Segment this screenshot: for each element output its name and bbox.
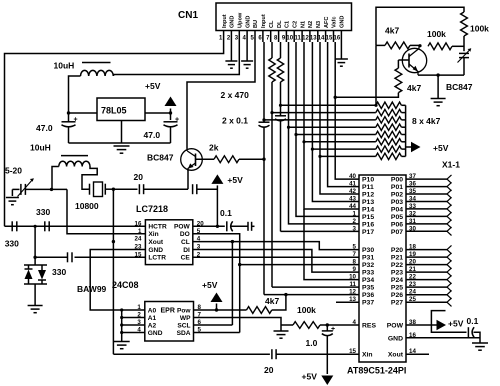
wire 4k7 bottom to Vafc column bbox=[335, 93, 398, 98]
wire CN1 pin5 to transistor Q1 collector bbox=[187, 42, 255, 149]
capacitor 330 LCTR bbox=[67, 252, 69, 262]
power +5V oscillator bbox=[211, 174, 223, 184]
svg-text:0.1: 0.1 bbox=[467, 316, 479, 326]
wire Q2 base network bbox=[398, 59, 409, 61]
svg-text:13: 13 bbox=[310, 36, 317, 42]
wire MCU GND to ground bbox=[406, 337, 480, 339]
svg-text:Xin: Xin bbox=[148, 231, 158, 238]
svg-text:1.0: 1.0 bbox=[306, 338, 318, 348]
svg-text:C1: C1 bbox=[285, 21, 291, 28]
power +5V down arrow bbox=[321, 376, 333, 386]
svg-text:RES: RES bbox=[362, 323, 376, 330]
svg-text:+: + bbox=[74, 117, 78, 124]
wire bus column pin9 to P16 bbox=[289, 42, 360, 224]
svg-text:12: 12 bbox=[349, 289, 356, 296]
svg-text:12: 12 bbox=[302, 36, 309, 42]
svg-text:78L05: 78L05 bbox=[101, 106, 127, 116]
wire DO to P32 and SDA bbox=[193, 234, 359, 265]
svg-text:LCTR: LCTR bbox=[148, 255, 166, 262]
svg-text:Vafc: Vafc bbox=[332, 16, 338, 28]
svg-text:P37: P37 bbox=[362, 300, 374, 307]
svg-text:P03: P03 bbox=[391, 199, 403, 206]
capacitor POW second bbox=[247, 222, 249, 231]
wire tank junction to LC7218 Xin bbox=[26, 188, 68, 190]
wire RES row bbox=[327, 324, 359, 326]
svg-text:C2: C2 bbox=[292, 21, 298, 28]
wire reset cap to +5V down arrow bbox=[326, 335, 328, 374]
ground CN1 pin4 bbox=[246, 42, 248, 61]
svg-text:GND: GND bbox=[340, 16, 346, 28]
svg-text:14: 14 bbox=[318, 36, 325, 42]
crystal 10800 bbox=[89, 184, 91, 195]
svg-text:Pow: Pow bbox=[177, 307, 191, 314]
capacitor 330 second bbox=[44, 221, 46, 231]
svg-text:+5V: +5V bbox=[433, 143, 449, 153]
svg-text:5-20: 5-20 bbox=[5, 166, 22, 176]
wire Q2 emitter rail bbox=[418, 74, 464, 76]
wire bus column pin6 to P36 bbox=[263, 42, 265, 122]
svg-text:+5V: +5V bbox=[227, 175, 243, 185]
svg-text:11: 11 bbox=[295, 36, 302, 42]
wire 78L05 input bbox=[69, 112, 98, 114]
svg-text:330: 330 bbox=[52, 267, 66, 277]
wire diode branch bbox=[34, 226, 36, 265]
svg-text:AFC: AFC bbox=[324, 17, 330, 29]
svg-text:P35: P35 bbox=[362, 285, 374, 292]
svg-text:20: 20 bbox=[134, 172, 144, 182]
svg-text:P12: P12 bbox=[362, 192, 374, 199]
svg-text:P21: P21 bbox=[391, 255, 403, 262]
svg-text:CN1: CN1 bbox=[178, 10, 198, 21]
svg-text:+5V: +5V bbox=[202, 280, 218, 290]
svg-text:24: 24 bbox=[135, 236, 142, 243]
svg-text:P00: P00 bbox=[391, 177, 403, 184]
power +5V 24C08 bbox=[194, 309, 247, 311]
wire CL to P30 and SCL bbox=[193, 242, 359, 250]
wire bus column pin13 to P12 bbox=[320, 42, 359, 194]
wire bus column pin15 to P10 bbox=[335, 42, 359, 179]
svg-text:DO: DO bbox=[180, 231, 190, 238]
wire bus column pin8 to P17 bbox=[280, 120, 282, 231]
svg-text:CL: CL bbox=[269, 20, 275, 28]
svg-text:9: 9 bbox=[353, 266, 357, 273]
ground CN1 pin16 bbox=[340, 42, 342, 59]
ground reset bbox=[274, 330, 289, 332]
svg-text:Xout: Xout bbox=[388, 352, 404, 359]
regulator 78L05 bbox=[97, 98, 145, 121]
svg-text:X1-1: X1-1 bbox=[442, 160, 460, 170]
power +5V regulator output bbox=[170, 109, 172, 121]
svg-text:GND: GND bbox=[148, 247, 163, 254]
svg-text:16: 16 bbox=[334, 36, 341, 42]
svg-text:GND: GND bbox=[148, 330, 163, 337]
ground diodes bbox=[34, 284, 36, 306]
svg-text:N3: N3 bbox=[316, 21, 322, 28]
svg-text:10: 10 bbox=[286, 36, 293, 42]
wire bypass cap to +5V stem bbox=[197, 188, 218, 190]
svg-text:DL: DL bbox=[277, 20, 283, 28]
svg-text:Upow: Upow bbox=[238, 12, 244, 28]
svg-text:+: + bbox=[331, 326, 335, 333]
svg-text:Xout: Xout bbox=[148, 239, 163, 246]
capacitor 0.1 on pin6 column bbox=[259, 121, 270, 123]
svg-text:10uH: 10uH bbox=[54, 61, 75, 71]
svg-text:P23: P23 bbox=[391, 270, 403, 277]
svg-text:P16: P16 bbox=[362, 221, 374, 228]
svg-text:7: 7 bbox=[353, 251, 357, 258]
wire top rail to 100k bbox=[376, 7, 464, 45]
svg-text:47.0: 47.0 bbox=[144, 130, 161, 140]
svg-text:20: 20 bbox=[264, 365, 274, 375]
svg-text:47.0: 47.0 bbox=[36, 123, 53, 133]
svg-text:N2: N2 bbox=[308, 21, 314, 28]
capacitor bypass at Q1 emitter bbox=[192, 184, 194, 194]
svg-text:A2: A2 bbox=[148, 322, 157, 329]
svg-text:+: + bbox=[175, 117, 179, 124]
svg-text:A0: A0 bbox=[148, 307, 157, 314]
capacitor 47.0 input electrolytic bbox=[62, 121, 76, 123]
capacitor 330 left bbox=[11, 221, 13, 231]
svg-text:P15: P15 bbox=[362, 214, 374, 221]
svg-text:4k7: 4k7 bbox=[385, 26, 399, 36]
svg-text:WP: WP bbox=[180, 315, 191, 322]
svg-text:N1: N1 bbox=[300, 21, 306, 28]
svg-text:P27: P27 bbox=[391, 300, 403, 307]
svg-text:+5V: +5V bbox=[145, 81, 161, 91]
svg-text:3: 3 bbox=[353, 225, 357, 232]
connector X1-1 port2 bbox=[406, 249, 447, 251]
resistor 4k7 emitter-base vertical bbox=[395, 68, 402, 93]
svg-text:P22: P22 bbox=[391, 262, 403, 269]
resistor array 8x4k7 bbox=[281, 104, 376, 106]
svg-text:P05: P05 bbox=[391, 214, 403, 221]
svg-text:2: 2 bbox=[353, 218, 357, 225]
svg-text:42: 42 bbox=[349, 188, 356, 195]
svg-text:Input: Input bbox=[222, 14, 228, 28]
svg-text:P36: P36 bbox=[362, 292, 374, 299]
svg-text:5: 5 bbox=[353, 244, 357, 251]
wire bus column pin11 to P14 and P34 bbox=[304, 42, 359, 209]
wire LC7218 GND to 24C08 ground bus bbox=[90, 250, 145, 311]
wire SDA up bbox=[194, 332, 240, 334]
svg-text:10: 10 bbox=[349, 274, 356, 281]
svg-text:44: 44 bbox=[349, 203, 356, 210]
wire WP to ground node bbox=[194, 318, 282, 326]
svg-text:P34: P34 bbox=[362, 277, 374, 284]
svg-text:+5V: +5V bbox=[302, 372, 318, 382]
svg-text:330: 330 bbox=[5, 239, 19, 249]
diode pair BAW99 bbox=[24, 264, 47, 266]
svg-text:0.1: 0.1 bbox=[220, 208, 232, 218]
svg-text:AT89C51-24PI: AT89C51-24PI bbox=[347, 366, 406, 376]
svg-text:10800: 10800 bbox=[75, 201, 99, 211]
svg-text:41: 41 bbox=[349, 181, 356, 188]
svg-text:+5V: +5V bbox=[448, 319, 464, 329]
svg-text:15: 15 bbox=[326, 36, 333, 42]
svg-text:SDA: SDA bbox=[177, 330, 191, 337]
wire P37 stub bbox=[336, 301, 359, 303]
svg-text:100k: 100k bbox=[470, 24, 489, 34]
wire XTAL bus bbox=[113, 353, 270, 355]
svg-text:A1: A1 bbox=[148, 315, 157, 322]
wire bus column pin14 to P11 bbox=[328, 42, 359, 187]
EEPROM 24C08 bbox=[145, 302, 194, 342]
svg-text:P17: P17 bbox=[362, 229, 374, 236]
svg-text:P07: P07 bbox=[391, 229, 403, 236]
svg-text:P25: P25 bbox=[391, 285, 403, 292]
svg-text:10uH: 10uH bbox=[30, 143, 51, 153]
wire bus column pin7 to P35 bbox=[271, 82, 273, 287]
wire bus column pin12 to P13 bbox=[312, 42, 359, 202]
svg-text:8: 8 bbox=[353, 259, 357, 266]
svg-text:100k: 100k bbox=[297, 305, 316, 315]
wire SCL up bbox=[194, 324, 233, 326]
svg-text:P32: P32 bbox=[362, 262, 374, 269]
svg-text:P04: P04 bbox=[391, 206, 403, 213]
svg-text:P10: P10 bbox=[362, 177, 374, 184]
wire 4k7 to P36 row bbox=[272, 295, 286, 310]
svg-text:P33: P33 bbox=[362, 270, 374, 277]
svg-text:BAW99: BAW99 bbox=[77, 284, 107, 294]
power +5V array rail bbox=[411, 142, 421, 152]
svg-text:1: 1 bbox=[353, 210, 357, 217]
svg-text:330: 330 bbox=[36, 207, 50, 217]
svg-text:LC7218: LC7218 bbox=[136, 204, 168, 214]
svg-text:24C08: 24C08 bbox=[112, 280, 139, 290]
svg-text:POW: POW bbox=[387, 323, 404, 330]
ground MCU bbox=[472, 342, 488, 344]
svg-text:P30: P30 bbox=[362, 247, 374, 254]
ground CN1 pin2 bbox=[230, 42, 232, 61]
wire 78L05 ground rail bbox=[121, 121, 123, 144]
svg-text:BC847: BC847 bbox=[446, 82, 473, 92]
wire CN1 pin1 to LC7218 HCTR row bbox=[5, 42, 224, 226]
wire 78L05 output bbox=[145, 112, 171, 114]
svg-text:Input: Input bbox=[261, 14, 267, 28]
svg-text:2k: 2k bbox=[209, 143, 219, 153]
svg-text:P02: P02 bbox=[391, 192, 403, 199]
wire LCTR row bbox=[75, 256, 146, 258]
svg-text:Xin: Xin bbox=[362, 352, 373, 359]
svg-text:P06: P06 bbox=[391, 221, 403, 228]
svg-text:13: 13 bbox=[349, 296, 356, 303]
PLL LC7218 bbox=[145, 220, 192, 265]
svg-text:BC847: BC847 bbox=[147, 153, 174, 163]
svg-text:4k7: 4k7 bbox=[407, 83, 421, 93]
wire crystal node to 20pF cap bbox=[113, 188, 137, 190]
wire POW row 0.1 cap bbox=[193, 225, 225, 227]
svg-text:11: 11 bbox=[349, 281, 356, 288]
svg-text:EPR: EPR bbox=[161, 308, 175, 315]
svg-text:P13: P13 bbox=[362, 199, 374, 206]
svg-text:P14: P14 bbox=[362, 206, 374, 213]
svg-text:P11: P11 bbox=[362, 184, 374, 191]
svg-text:HCTR: HCTR bbox=[148, 224, 167, 231]
svg-text:GND: GND bbox=[245, 16, 251, 28]
microcontroller AT89C51-24PI bbox=[359, 175, 406, 362]
svg-text:SCL: SCL bbox=[177, 322, 190, 329]
ground Q2 emitter bbox=[437, 75, 439, 98]
wire Xout stub bbox=[406, 353, 429, 355]
wire Q1 emitter down bbox=[187, 170, 189, 189]
svg-text:2 x 0.1: 2 x 0.1 bbox=[222, 116, 248, 126]
svg-text:1: 1 bbox=[138, 228, 142, 235]
wire bus column pin10 to P15 bbox=[296, 42, 359, 216]
wire column x376 to array row1 bbox=[375, 45, 377, 105]
wire P27 loop to decoupling bbox=[431, 311, 466, 333]
svg-text:P26: P26 bbox=[391, 292, 403, 299]
svg-text:P31: P31 bbox=[362, 255, 374, 262]
wire POW to +5V bbox=[406, 324, 437, 326]
svg-text:P24: P24 bbox=[391, 277, 403, 284]
wire 20pF to Q1 emitter junction bbox=[144, 188, 188, 190]
wire CN1 pin3 to 10uH input coil bbox=[114, 42, 240, 75]
trimmer capacitor top-right bbox=[459, 52, 469, 54]
wire 2k to pin6 column bbox=[239, 158, 264, 160]
wire coil to crystal staircase bbox=[82, 167, 97, 190]
svg-text:CL: CL bbox=[181, 239, 190, 246]
capacitor 47.0 output electrolytic bbox=[164, 121, 178, 123]
svg-text:DI: DI bbox=[183, 247, 190, 254]
svg-text:BU: BU bbox=[253, 20, 259, 28]
svg-text:4k7: 4k7 bbox=[265, 296, 279, 306]
wire DI to P33 bbox=[193, 250, 359, 273]
resistor 470 on pin7 column bbox=[271, 42, 273, 58]
svg-text:2 x 470: 2 x 470 bbox=[221, 90, 250, 100]
ground 24C08 bbox=[114, 341, 130, 343]
connector CN1 body bbox=[216, 3, 352, 31]
svg-text:CE: CE bbox=[181, 255, 191, 262]
resistor 470 on pin8 column bbox=[280, 42, 282, 58]
ground 78L05 bbox=[114, 145, 130, 147]
wire array common rail bbox=[405, 105, 407, 156]
wire crystal node down to Xout bbox=[112, 189, 114, 241]
svg-text:POW: POW bbox=[174, 224, 191, 231]
svg-text:100k: 100k bbox=[427, 29, 446, 39]
svg-text:GND: GND bbox=[388, 335, 403, 342]
transistor Q2 BC847 bbox=[402, 48, 426, 72]
wire 24C08 address ground bus bbox=[121, 310, 123, 342]
svg-text:40: 40 bbox=[349, 173, 356, 180]
CN1 pin stubs and numbers bbox=[223, 31, 225, 43]
wire HCTR row with 330 caps bbox=[5, 225, 146, 227]
capacitor 0.1 on pin8 column bbox=[280, 82, 282, 116]
svg-text:GND: GND bbox=[230, 16, 236, 28]
svg-text:43: 43 bbox=[349, 196, 356, 203]
svg-text:P20: P20 bbox=[391, 247, 403, 254]
svg-text:P01: P01 bbox=[391, 184, 403, 191]
wire CE to P31 bbox=[193, 256, 359, 258]
svg-text:8 x 4k7: 8 x 4k7 bbox=[412, 116, 441, 126]
